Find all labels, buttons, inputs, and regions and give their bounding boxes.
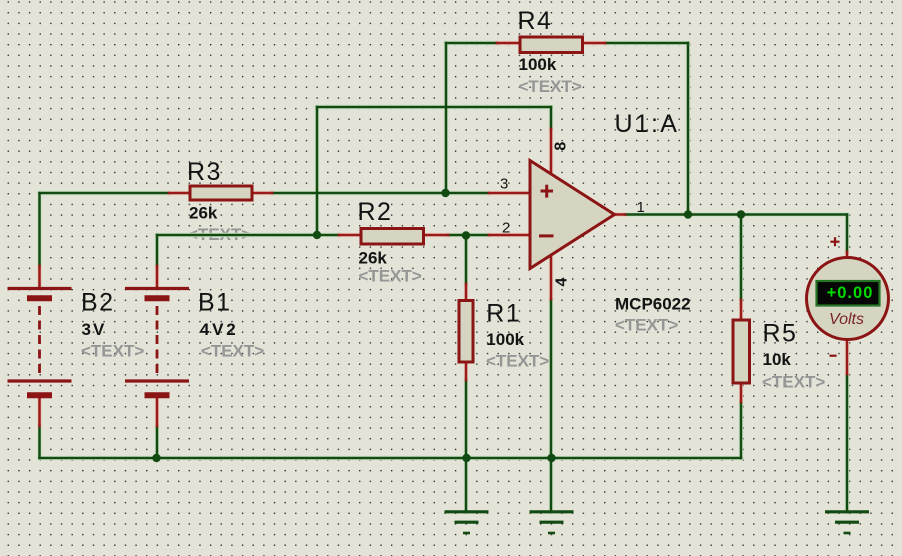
svg-text:2: 2 [502,220,510,237]
svg-text:R1: R1 [486,300,521,328]
svg-text:<TEXT>: <TEXT> [201,342,264,361]
svg-text:R2: R2 [358,198,393,226]
svg-text:<TEXT>: <TEXT> [359,267,422,286]
svg-text:<TEXT>: <TEXT> [762,373,825,392]
svg-text:+0.00: +0.00 [827,284,874,302]
svg-text:<TEXT>: <TEXT> [519,77,582,96]
svg-text:8: 8 [553,142,570,151]
svg-text:R3: R3 [187,158,222,186]
svg-text:Volts: Volts [829,311,864,328]
svg-text:<TEXT>: <TEXT> [486,351,549,370]
svg-text:R5: R5 [763,320,798,348]
svg-text:B1: B1 [198,289,232,317]
svg-text:1: 1 [637,199,645,216]
svg-text:R4: R4 [518,7,553,35]
svg-text:100k: 100k [519,55,557,74]
svg-text:10k: 10k [763,350,792,369]
svg-text:3V: 3V [82,320,107,339]
svg-text:<TEXT>: <TEXT> [81,341,144,360]
svg-text:<TEXT>: <TEXT> [615,316,678,335]
svg-text:U1:A: U1:A [615,110,680,138]
svg-text:26k: 26k [359,249,388,268]
svg-text:B2: B2 [81,289,115,317]
svg-text:4: 4 [553,277,570,286]
svg-text:4V2: 4V2 [200,320,239,339]
svg-text:MCP6022: MCP6022 [615,295,691,314]
svg-text:26k: 26k [189,204,218,223]
svg-text:3: 3 [500,176,508,193]
svg-text:100k: 100k [486,330,524,349]
